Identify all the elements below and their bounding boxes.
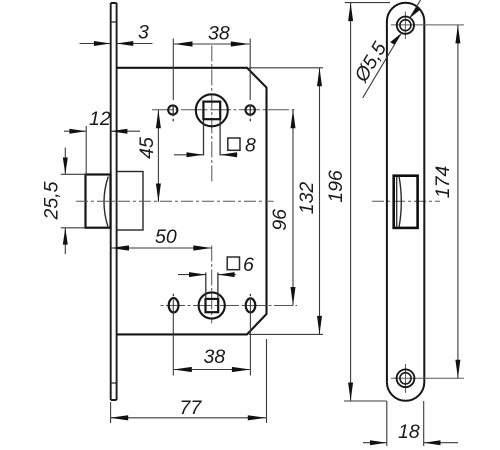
dim 174 [455,25,460,378]
top left small hole [168,105,177,114]
dim 25,5 [61,148,86,255]
dim 6 arrows [178,272,236,277]
dim 8 square symbol [228,138,240,150]
svg-text:38: 38 [204,346,226,368]
top spindle circle [196,94,228,126]
dim 96 [291,110,296,306]
dim 196 [348,3,353,401]
svg-text:38: 38 [208,23,230,45]
svg-text:Ø5,5: Ø5,5 [350,38,391,87]
latch guide box inside body [117,172,143,231]
bottom left oval hole [169,298,179,312]
latch bolt [86,175,111,228]
svg-text:12: 12 [89,108,111,130]
dim 132 [317,68,322,335]
dim 38 bottom [173,300,250,376]
dim 3 faceplate thickness [80,41,153,46]
latch bevel edge front view [396,177,398,227]
svg-text:3: 3 [138,22,149,44]
svg-text:196: 196 [325,170,347,203]
svg-text:25,5: 25,5 [41,181,63,220]
top spindle square hole 8mm [203,102,220,120]
svg-text:8: 8 [245,135,256,157]
dim 132 extension lines [249,68,323,335]
dim 6 square symbol [227,257,239,270]
top square side extension lines [204,119,221,155]
dim 45 [156,110,161,202]
top screw hole [397,17,414,34]
svg-text:45: 45 [136,137,158,159]
svg-text:132: 132 [296,182,318,215]
svg-text:6: 6 [243,254,254,276]
top screw hole crosshair [391,12,464,40]
top holes horizontal centerline [152,109,297,111]
faceplate corner-radius tangent lines [111,22,117,383]
top spindle vertical centerline [211,46,213,184]
svg-text:50: 50 [155,226,177,248]
bottom square side extension lines [206,273,218,299]
dim 12 [64,126,140,176]
dim 196 extension lines [344,3,390,401]
bottom screw hole crosshair [391,364,464,393]
svg-text:174: 174 [432,166,454,199]
dim 18 [363,401,458,446]
bottom spindle vertical centerline [211,246,213,324]
bottom spindle square hole 6mm [206,299,219,312]
latch horizontal centerline dash-dot [76,200,440,202]
latch bevel arc [104,177,108,227]
bottom screw hole [397,369,415,387]
dim 77 [110,339,267,423]
latch opening front view [394,176,418,228]
dim 50 [111,245,212,250]
bottom holes horizontal centerline [161,305,298,307]
front faceplate view (right, stadium outline) [387,3,424,401]
lock body outline [117,68,267,335]
faceplate side view (left strip) [111,3,117,400]
bottom right oval hole [246,298,256,312]
bottom spindle circle [199,292,225,318]
dia 5,5 leader line [363,0,421,98]
svg-text:18: 18 [398,421,420,443]
dim 38 top [173,39,250,101]
dim 8 arrows [174,152,238,157]
svg-text:96: 96 [269,209,291,231]
svg-text:77: 77 [180,397,203,419]
top right small hole [246,105,255,114]
